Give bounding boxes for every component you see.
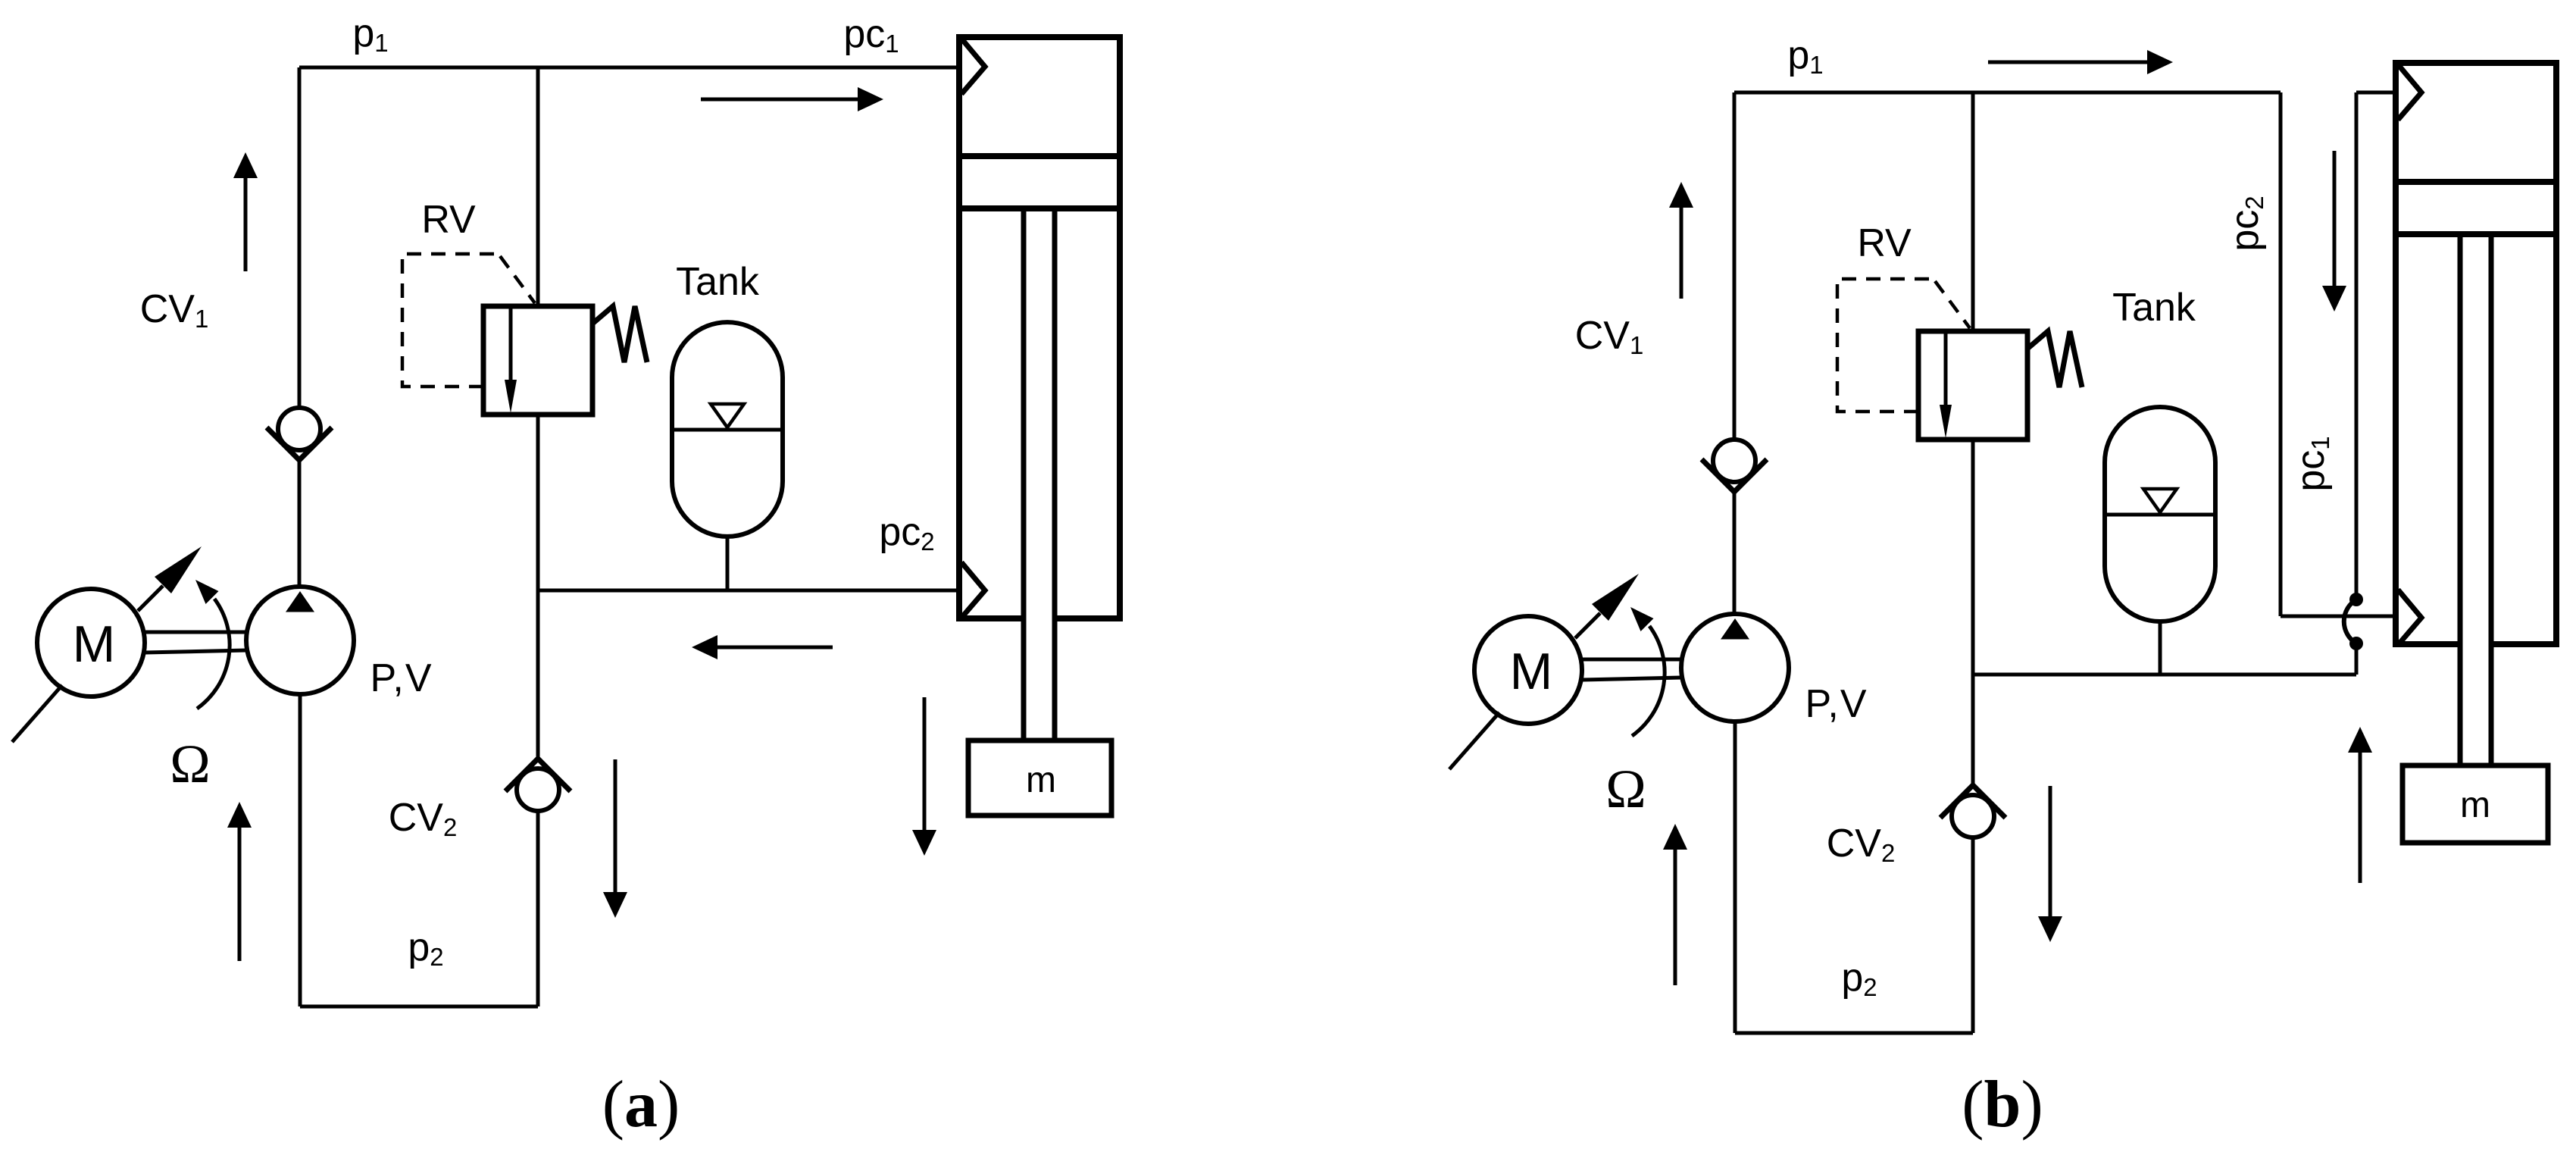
variable arrow head (b) [1592, 574, 1639, 621]
svg-text:P,V: P,V [370, 656, 433, 700]
flow arrow right pc1 (a) [858, 87, 883, 111]
shaft upper line (a) [145, 631, 246, 634]
rotation arrow head (a) [195, 580, 219, 604]
wire pc1 rail (b) [1973, 673, 2356, 677]
variable arrow upper segment (a) [138, 586, 163, 611]
relief valve RV internal arrow (b) [1944, 331, 1948, 408]
mass block m (b) [2402, 765, 2548, 843]
cylinder bottom cap left (b) [2393, 641, 2460, 647]
svg-text:RV: RV [1857, 221, 1912, 265]
flow arrow down right of tank (a) [912, 830, 936, 856]
flow arrow right top (b) [2147, 50, 2173, 74]
wire junction to CV2 (b) [1971, 675, 1975, 785]
check valve CV1 (a) ball [278, 408, 320, 450]
node hop lower dot (b) [2349, 637, 2363, 650]
tank stem wire (a) [726, 537, 730, 590]
variable arrow lower segment (a) [12, 685, 62, 742]
wire pc2 rail (a) [538, 589, 959, 593]
svg-text:pc1: pc1 [2289, 436, 2334, 491]
svg-text:m: m [1026, 760, 1056, 800]
flow arrow up near p2 (b) [1663, 824, 1687, 850]
relief valve RV box (a) [483, 306, 592, 415]
check valve CV2 (a) ball [517, 769, 559, 811]
relief valve spring (b) [2027, 331, 2082, 387]
svg-text:CV2: CV2 [1827, 822, 1896, 867]
check valve CV2 (b) seat [1940, 785, 2005, 818]
relief valve spring (a) [592, 306, 647, 362]
check valve CV1 (b) seat [1702, 459, 1767, 492]
piston rod right edge (a) [1052, 208, 1058, 740]
pump outlet triangle (a) [286, 591, 314, 612]
tank accumulator shell (a) [672, 322, 783, 537]
shaft lower line (a) [145, 650, 246, 653]
cylinder left wall (a) [956, 37, 962, 618]
variable arrow head (a) [155, 546, 202, 593]
wire CV1 branch upper (b) [1733, 92, 1737, 440]
motor M circle (b) [1474, 616, 1582, 724]
wire pc1 riser lower (b) [2355, 643, 2359, 675]
cylinder bottom cap right (b) [2491, 641, 2559, 647]
svg-text:pc2: pc2 [879, 510, 934, 556]
rotation arc Omega (a) [197, 599, 230, 709]
svg-text:Tank: Tank [676, 260, 760, 304]
wire CV1 to pump (b) [1733, 492, 1737, 614]
svg-text:Tank: Tank [2112, 286, 2196, 330]
pump P,V circle (a) [246, 587, 354, 694]
flow arrow up near CV1 (b) [1669, 182, 1693, 208]
tank gas triangle (a) [711, 404, 744, 427]
cylinder right wall (b) [2553, 63, 2559, 644]
svg-text:P,V: P,V [1805, 682, 1868, 726]
wire CV1 to pump (a) [298, 460, 302, 587]
wire pc1 to cylinder top port (b) [2356, 91, 2396, 95]
flow arrow down pc2 (b) [2322, 286, 2346, 311]
wire pump bottom (a) [299, 694, 302, 1006]
cylinder port chevron pc1 top (b) [2398, 64, 2421, 120]
wire p1 top rail (a) [299, 66, 959, 70]
tank stem wire (b) [2159, 621, 2162, 675]
flow arrow left under pc2 (a) [692, 635, 717, 659]
svg-text:CV1: CV1 [1575, 314, 1644, 359]
wire CV2 lower (b) [1971, 837, 1975, 1033]
variable arrow upper segment (b) [1575, 613, 1600, 638]
rotation arc Omega (b) [1632, 626, 1665, 736]
piston rod right edge (b) [2489, 234, 2494, 766]
piston rod left edge (a) [1021, 208, 1027, 740]
svg-text:(a): (a) [602, 1068, 680, 1141]
wire hop arc crossing (b) [2344, 599, 2356, 643]
wire pc2 to cylinder bottom port (b) [2281, 615, 2396, 618]
wire CV1 branch upper (a) [298, 67, 302, 408]
svg-text:M: M [73, 615, 116, 673]
tank liquid line (b) [2105, 513, 2215, 517]
svg-text:p2: p2 [1841, 956, 1877, 1001]
svg-text:p1: p1 [352, 11, 388, 57]
shaft lower line (b) [1582, 678, 1681, 680]
svg-text:Ω: Ω [170, 734, 211, 794]
wire pc1 riser upper (b) [2355, 92, 2359, 599]
cylinder top cap (b) [2393, 60, 2559, 66]
flow arrow up near p2 (a) [227, 802, 252, 828]
wire p1 top rail (b) [1734, 91, 2281, 95]
cylinder port chevron pc2 (a) [961, 562, 985, 618]
cylinder top cap (a) [956, 34, 1123, 40]
wire pump bottom (b) [1733, 722, 1737, 1033]
wire RV branch upper (a) [536, 67, 540, 306]
check valve CV2 (b) ball [1952, 795, 1994, 837]
variable arrow lower segment (b) [1449, 712, 1499, 769]
wire RV to junction (a) [536, 415, 540, 590]
wire pc2 riser (b) [2279, 92, 2283, 616]
wire RV branch upper (b) [1971, 92, 1975, 331]
pump P,V circle (b) [1681, 614, 1789, 722]
svg-text:(b): (b) [1962, 1068, 2043, 1141]
svg-text:pc2: pc2 [2223, 196, 2268, 251]
pump outlet triangle (b) [1721, 618, 1749, 640]
rotation arrow head (b) [1630, 607, 1654, 631]
relief valve RV internal arrow (a) [509, 306, 513, 383]
svg-text:pc1: pc1 [843, 12, 899, 58]
svg-text:p1: p1 [1787, 33, 1823, 79]
piston rod left edge (b) [2458, 234, 2463, 766]
check valve CV2 (a) seat [505, 759, 571, 791]
wire p2 bottom rail (a) [300, 1005, 538, 1009]
wire RV to junction (b) [1971, 440, 1975, 675]
mass block m (a) [968, 740, 1111, 815]
check valve CV1 (b) ball [1713, 440, 1755, 482]
flow arrow up near mass (b) [2348, 727, 2372, 753]
relief valve pilot dashed line (b) [1837, 279, 1970, 412]
svg-text:m: m [2460, 785, 2490, 825]
piston bottom face (b) [2396, 231, 2556, 237]
flow arrow up near CV1 (a) [233, 152, 258, 178]
shaft upper line (b) [1582, 658, 1681, 662]
svg-text:RV: RV [421, 198, 476, 242]
svg-text:p2: p2 [408, 925, 443, 971]
svg-text:CV1: CV1 [140, 287, 209, 333]
piston top face (b) [2396, 179, 2556, 185]
wire p2 bottom rail (b) [1735, 1031, 1973, 1035]
tank gas triangle (b) [2143, 489, 2177, 512]
cylinder left wall (b) [2393, 63, 2399, 644]
piston top face (a) [959, 153, 1120, 159]
cylinder port chevron pc2 bottom (b) [2398, 590, 2421, 645]
svg-text:Ω: Ω [1605, 759, 1646, 819]
cylinder right wall (a) [1117, 37, 1123, 618]
tank accumulator shell (b) [2105, 407, 2215, 621]
relief valve RV box (b) [1918, 331, 2027, 440]
tank liquid line (a) [672, 428, 783, 432]
svg-text:M: M [1510, 643, 1553, 700]
piston bottom face (a) [959, 205, 1120, 211]
wire CV2 lower (a) [536, 811, 540, 1006]
motor M circle (a) [37, 589, 145, 697]
flow arrow down left (b) [2038, 916, 2062, 942]
cylinder bottom cap right (a) [1055, 615, 1123, 621]
wire junction to CV2 (a) [536, 590, 540, 759]
cylinder port chevron pc1 (a) [961, 39, 985, 94]
relief valve pilot dashed line (a) [402, 254, 535, 387]
node hop upper dot (b) [2349, 593, 2363, 606]
svg-text:CV2: CV2 [389, 796, 458, 841]
cylinder bottom cap left (a) [956, 615, 1024, 621]
check valve CV1 (a) seat [267, 427, 332, 460]
flow arrow down left (a) [603, 892, 627, 918]
